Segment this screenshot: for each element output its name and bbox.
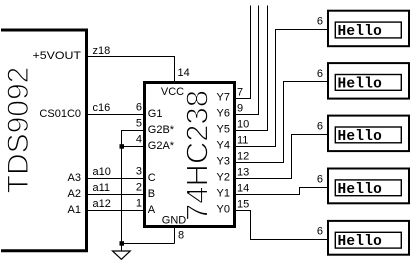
display DS2 box	[328, 63, 409, 99]
svg-text:9: 9	[237, 103, 243, 115]
svg-text:6: 6	[317, 16, 323, 28]
svg-text:+5VOUT: +5VOUT	[33, 50, 82, 62]
display DS2 screen	[335, 75, 401, 91]
svg-text:A1: A1	[68, 204, 81, 216]
svg-text:6: 6	[317, 226, 323, 238]
svg-text:5: 5	[136, 118, 142, 130]
wire A1 a12 to A	[88, 210, 143, 212]
svg-text:14: 14	[178, 67, 190, 79]
display DS4 box	[328, 169, 409, 204]
svg-text:4: 4	[136, 134, 142, 146]
svg-text:VCC: VCC	[161, 86, 184, 98]
svg-text:z18: z18	[93, 45, 111, 57]
svg-text:a12: a12	[93, 198, 111, 210]
svg-text:Y4: Y4	[217, 140, 230, 152]
wire G2B* to ground net	[122, 131, 144, 244]
svg-text:Hello: Hello	[338, 76, 383, 92]
wire A3 a10 to C	[88, 178, 143, 180]
svg-text:7: 7	[237, 87, 243, 99]
svg-text:6: 6	[136, 102, 142, 114]
pin 8 stub wire	[174, 227, 176, 244]
svg-text:Y3: Y3	[217, 156, 230, 168]
display DS3 screen	[335, 127, 401, 143]
svg-text:a10: a10	[93, 166, 111, 178]
svg-text:Hello: Hello	[338, 182, 383, 198]
svg-text:6: 6	[317, 120, 323, 132]
svg-text:8: 8	[178, 230, 184, 242]
svg-text:6: 6	[317, 173, 323, 185]
svg-text:Hello: Hello	[338, 234, 383, 250]
svg-text:G2B*: G2B*	[148, 124, 175, 136]
wire Y5 dangling	[236, 6, 268, 131]
svg-text:G1: G1	[148, 108, 163, 120]
svg-text:B: B	[148, 188, 155, 200]
wire Y3 to display DS2	[236, 82, 328, 163]
wire Y1 to display DS4	[236, 188, 328, 195]
display DS4 screen	[335, 180, 401, 196]
svg-text:C: C	[148, 172, 156, 184]
wire A2 a11 to B	[88, 194, 143, 196]
display DS5 box	[328, 221, 409, 255]
svg-text:a11: a11	[93, 182, 111, 194]
wire Y4 to display DS1	[236, 30, 328, 147]
svg-text:74HC238: 74HC238	[180, 90, 215, 221]
wire CS01C0 c16 to G1	[88, 114, 143, 116]
svg-text:Y2: Y2	[217, 172, 230, 184]
wire Y7 dangling	[236, 6, 251, 99]
svg-text:Hello: Hello	[338, 24, 383, 40]
svg-text:Y1: Y1	[217, 188, 230, 200]
svg-text:Y7: Y7	[217, 92, 230, 104]
svg-text:A: A	[148, 204, 156, 216]
svg-text:c16: c16	[93, 102, 111, 114]
svg-text:A2: A2	[68, 188, 81, 200]
svg-text:13: 13	[237, 167, 249, 179]
svg-text:2: 2	[136, 182, 142, 194]
wire G2A* stub	[122, 146, 144, 148]
svg-text:Hello: Hello	[338, 129, 383, 145]
svg-text:Y5: Y5	[217, 124, 230, 136]
svg-text:G2A*: G2A*	[148, 140, 175, 152]
wire Y2 to display DS3	[236, 135, 328, 179]
svg-text:Y0: Y0	[217, 204, 230, 216]
ground wire to symbol	[121, 244, 123, 252]
display DS1 screen	[335, 22, 401, 38]
svg-text:A3: A3	[68, 172, 81, 184]
junction at ground	[120, 241, 125, 246]
svg-text:15: 15	[237, 199, 249, 211]
svg-text:12: 12	[237, 151, 249, 163]
svg-text:10: 10	[237, 119, 249, 131]
svg-text:6: 6	[317, 68, 323, 80]
svg-text:GND: GND	[162, 215, 187, 227]
display DS3 box	[328, 116, 409, 152]
display DS1 box	[328, 11, 409, 47]
ground wire horizontal	[122, 243, 175, 245]
svg-text:CS01C0: CS01C0	[39, 108, 81, 120]
svg-text:TDS9092: TDS9092	[2, 67, 35, 194]
wire Y6 dangling	[236, 6, 259, 115]
junction at G2A*	[120, 144, 125, 149]
IC U2 74HC238 box	[145, 83, 235, 227]
wire +5VOUT z18 to U2 pin 14	[88, 57, 175, 82]
svg-text:3: 3	[136, 166, 142, 178]
svg-text:1: 1	[136, 198, 142, 210]
svg-text:11: 11	[237, 135, 248, 147]
display DS5 screen	[335, 232, 401, 248]
IC U1 TDS9092 box	[1, 30, 87, 251]
wire Y0 to display DS5	[236, 211, 328, 240]
svg-text:Y6: Y6	[217, 108, 230, 120]
ground symbol	[113, 251, 131, 259]
svg-text:14: 14	[237, 183, 249, 195]
